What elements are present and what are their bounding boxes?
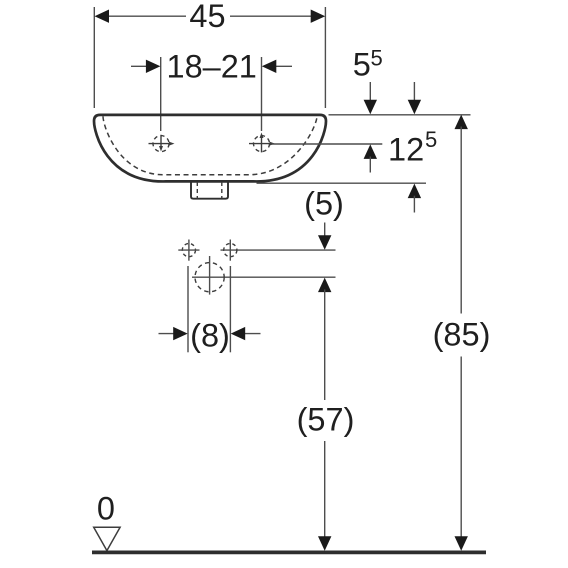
fixing hole left crosshair vertical <box>188 240 190 261</box>
dimension 45 extension line left <box>93 7 95 108</box>
dimension (57) down arrowhead at floor <box>318 536 331 551</box>
svg-text:(57): (57) <box>297 402 355 438</box>
siphon trap outline <box>191 183 228 199</box>
washbasin inner bowl dashed outline <box>103 116 317 175</box>
tap hole right crosshair horizontal <box>249 143 271 145</box>
dimension (85) down arrowhead at floor <box>455 536 468 551</box>
drain dashed circle <box>195 263 224 292</box>
svg-text:5: 5 <box>353 47 371 83</box>
dimension 5-5 down arrowhead at x 370 <box>364 100 377 115</box>
siphon trap dashed right line <box>221 182 223 198</box>
tap hole left crosshair vertical arrowhead <box>159 146 163 152</box>
dimension 12-5 up arrow tail at x 414 <box>413 196 415 213</box>
basin bottom reference line <box>257 182 427 184</box>
dimension (5) down arrow tail <box>324 223 326 239</box>
dimension 5-5 up arrow tail at x 370 <box>369 157 371 173</box>
dimension 12-5 up arrowhead at x 414 <box>408 184 421 199</box>
dimension 12-5 down arrow tail at x 414 <box>413 82 415 102</box>
dimension 18-21 extension line left <box>160 57 162 131</box>
drain crosshair vertical <box>209 256 211 295</box>
rim top reference line extension <box>329 114 471 116</box>
fixing hole left crosshair horizontal <box>178 249 199 251</box>
svg-text:0: 0 <box>97 491 115 527</box>
fixing hole right dashed circle <box>224 244 237 257</box>
dimension (8) arrowhead right <box>231 327 246 340</box>
fixing hole right crosshair vertical <box>229 240 231 261</box>
svg-text:5: 5 <box>371 46 383 71</box>
tap hole right crosshair vertical arrowhead up <box>260 133 264 139</box>
dimension (85) up arrowhead at rim line <box>455 115 468 130</box>
zero level datum triangle <box>94 527 120 550</box>
floor line <box>92 551 486 555</box>
dimension 12-5 down arrowhead at x 414 <box>408 100 421 115</box>
dimension 18-21 arrow tail left <box>131 65 148 67</box>
dimension (5) down arrowhead <box>318 235 331 250</box>
svg-text:(8): (8) <box>190 318 230 354</box>
dimension 18-21 arrowhead right <box>262 60 277 73</box>
fixing holes axis reference line <box>221 249 336 251</box>
svg-text:(85): (85) <box>433 317 491 353</box>
dimension 45 arrowhead left <box>95 10 110 23</box>
svg-text:(5): (5) <box>304 186 344 222</box>
tap hole axis reference line <box>272 143 382 145</box>
dimension (8) arrow tail right <box>243 333 261 335</box>
dimension (8) arrow tail left <box>159 333 177 335</box>
dimension (57) vertical line upper <box>324 290 326 401</box>
tap hole right crosshair horizontal arrowhead <box>270 142 276 146</box>
dimension (8) arrowhead left <box>173 327 188 340</box>
drain axis reference line <box>192 276 336 278</box>
dimension (57) vertical line lower <box>324 441 326 539</box>
dimension (85) vertical line lower <box>460 357 462 540</box>
dimension 18-21 extension line right <box>261 57 263 131</box>
dimension (8) extension line right <box>229 266 231 352</box>
svg-text:5: 5 <box>425 127 437 152</box>
dimension (57) up arrowhead <box>318 278 331 293</box>
fixing hole left dashed circle <box>182 244 195 257</box>
dimension 5-5 up arrowhead at x 370 <box>364 144 377 159</box>
dimension 45 line left segment <box>106 15 186 17</box>
tap hole right dashed circle <box>254 136 270 152</box>
dimension 5-5 down arrow tail at x 370 <box>369 82 371 102</box>
svg-text:45: 45 <box>189 0 225 34</box>
dimension (8) extension line left <box>187 266 189 352</box>
dimension 45 line right segment <box>230 15 314 17</box>
dimension (85) vertical line upper <box>460 127 462 314</box>
svg-text:18–21: 18–21 <box>167 49 257 85</box>
siphon trap dashed left line <box>196 182 198 198</box>
tap hole left crosshair horizontal arrowhead <box>169 142 175 146</box>
washbasin outer outline <box>94 115 326 182</box>
tap hole left crosshair vertical <box>160 135 162 148</box>
tap hole left crosshair horizontal <box>149 143 171 145</box>
dimension 18-21 arrowhead left <box>146 60 161 73</box>
tap hole left dashed circle <box>153 136 169 152</box>
svg-text:12: 12 <box>388 131 424 167</box>
dimension 45 extension line right <box>324 7 326 108</box>
tap hole right crosshair vertical top <box>261 137 263 153</box>
dimension 45 arrowhead right <box>311 10 326 23</box>
dimension 18-21 arrow tail right <box>274 65 292 67</box>
